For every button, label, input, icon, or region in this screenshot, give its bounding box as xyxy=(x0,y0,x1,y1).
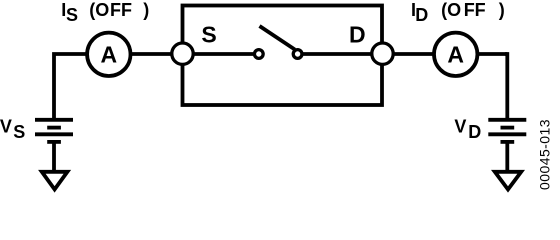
svg-text:S: S xyxy=(201,22,216,48)
battery VS plate long top xyxy=(35,118,73,122)
ground (right) xyxy=(495,172,521,190)
ammeter U2 (ID) xyxy=(434,33,477,76)
wire: VS top corner run (vertical from battery up, then right to ammeter) xyxy=(54,54,88,121)
battery VD plate short bottom xyxy=(501,140,515,144)
node S terminal circle xyxy=(172,43,193,64)
node D terminal circle xyxy=(372,43,393,64)
battery VS plate long bottom xyxy=(35,132,73,136)
battery VD plate long bottom xyxy=(488,132,526,136)
svg-text:A: A xyxy=(447,42,464,68)
box: device under test outline xyxy=(183,6,383,106)
wire: VS battery to ground xyxy=(52,140,56,172)
battery VS plate short bottom xyxy=(47,140,61,144)
svg-text:A: A xyxy=(100,42,117,68)
switch S1 lever (open) xyxy=(260,26,295,50)
wire: main horizontal rail left of switch gap xyxy=(86,52,259,56)
svg-text:00045-013: 00045-013 xyxy=(537,119,553,190)
svg-text:D: D xyxy=(349,22,366,48)
wire: main horizontal rail right of switch gap xyxy=(298,52,507,56)
battery VS plate short xyxy=(47,126,61,130)
ammeter U1 (IS) xyxy=(87,33,130,76)
battery VD plate short xyxy=(501,126,515,130)
switch S1 left contact xyxy=(254,50,263,59)
switch S1 right contact xyxy=(293,50,302,59)
battery VD plate long top xyxy=(488,118,526,122)
wire: ID corner run (right vertical down to VD battery) xyxy=(505,54,507,121)
wire: VD battery to ground xyxy=(505,140,509,172)
ground (left) xyxy=(42,172,68,190)
